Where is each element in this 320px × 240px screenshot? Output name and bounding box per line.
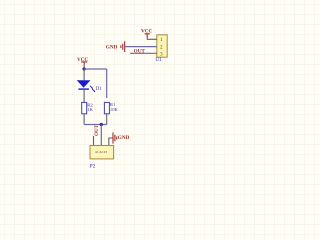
IC U1 — [155, 35, 167, 63]
svg-text:2: 2 — [160, 44, 163, 50]
svg-text:U1: U1 — [155, 57, 162, 63]
wire U1 pin 2 — [125, 46, 157, 48]
power symbol VCC (U1) — [141, 29, 152, 39]
node: bottom junction — [100, 123, 103, 126]
svg-text:D1: D1 — [96, 87, 102, 92]
wire bottom horizontal — [84, 124, 107, 126]
wire VCC stem to node — [83, 66, 85, 69]
svg-text:GND: GND — [118, 135, 130, 141]
svg-text:1K: 1K — [87, 107, 93, 112]
wire horizontal to right branch — [84, 68, 107, 70]
LED D1 — [77, 69, 103, 102]
svg-text:1: 1 — [160, 37, 163, 43]
svg-text:P2: P2 — [90, 163, 96, 169]
svg-text:#1 #2 #3: #1 #2 #3 — [95, 150, 107, 154]
svg-text:10K: 10K — [110, 107, 119, 112]
svg-text:OUT: OUT — [134, 49, 146, 55]
svg-text:GND: GND — [106, 44, 118, 50]
wire down to P2 pin 2 — [100, 125, 102, 138]
wire U1 pin 3 (OUT) — [130, 52, 157, 54]
wire U1 pin 1 to VCC — [147, 38, 157, 39]
node: VCC junction — [83, 67, 86, 70]
resistor R2 — [82, 102, 94, 124]
power symbol VCC (LED branch) — [77, 57, 88, 66]
svg-text:OUT: OUT — [95, 124, 100, 136]
ground GND (near P2) — [109, 132, 130, 145]
connector P2 — [90, 136, 114, 169]
wire right branch down to R1 — [106, 69, 108, 98]
resistor R1 — [104, 102, 118, 125]
ground GND (U1) — [106, 41, 125, 52]
